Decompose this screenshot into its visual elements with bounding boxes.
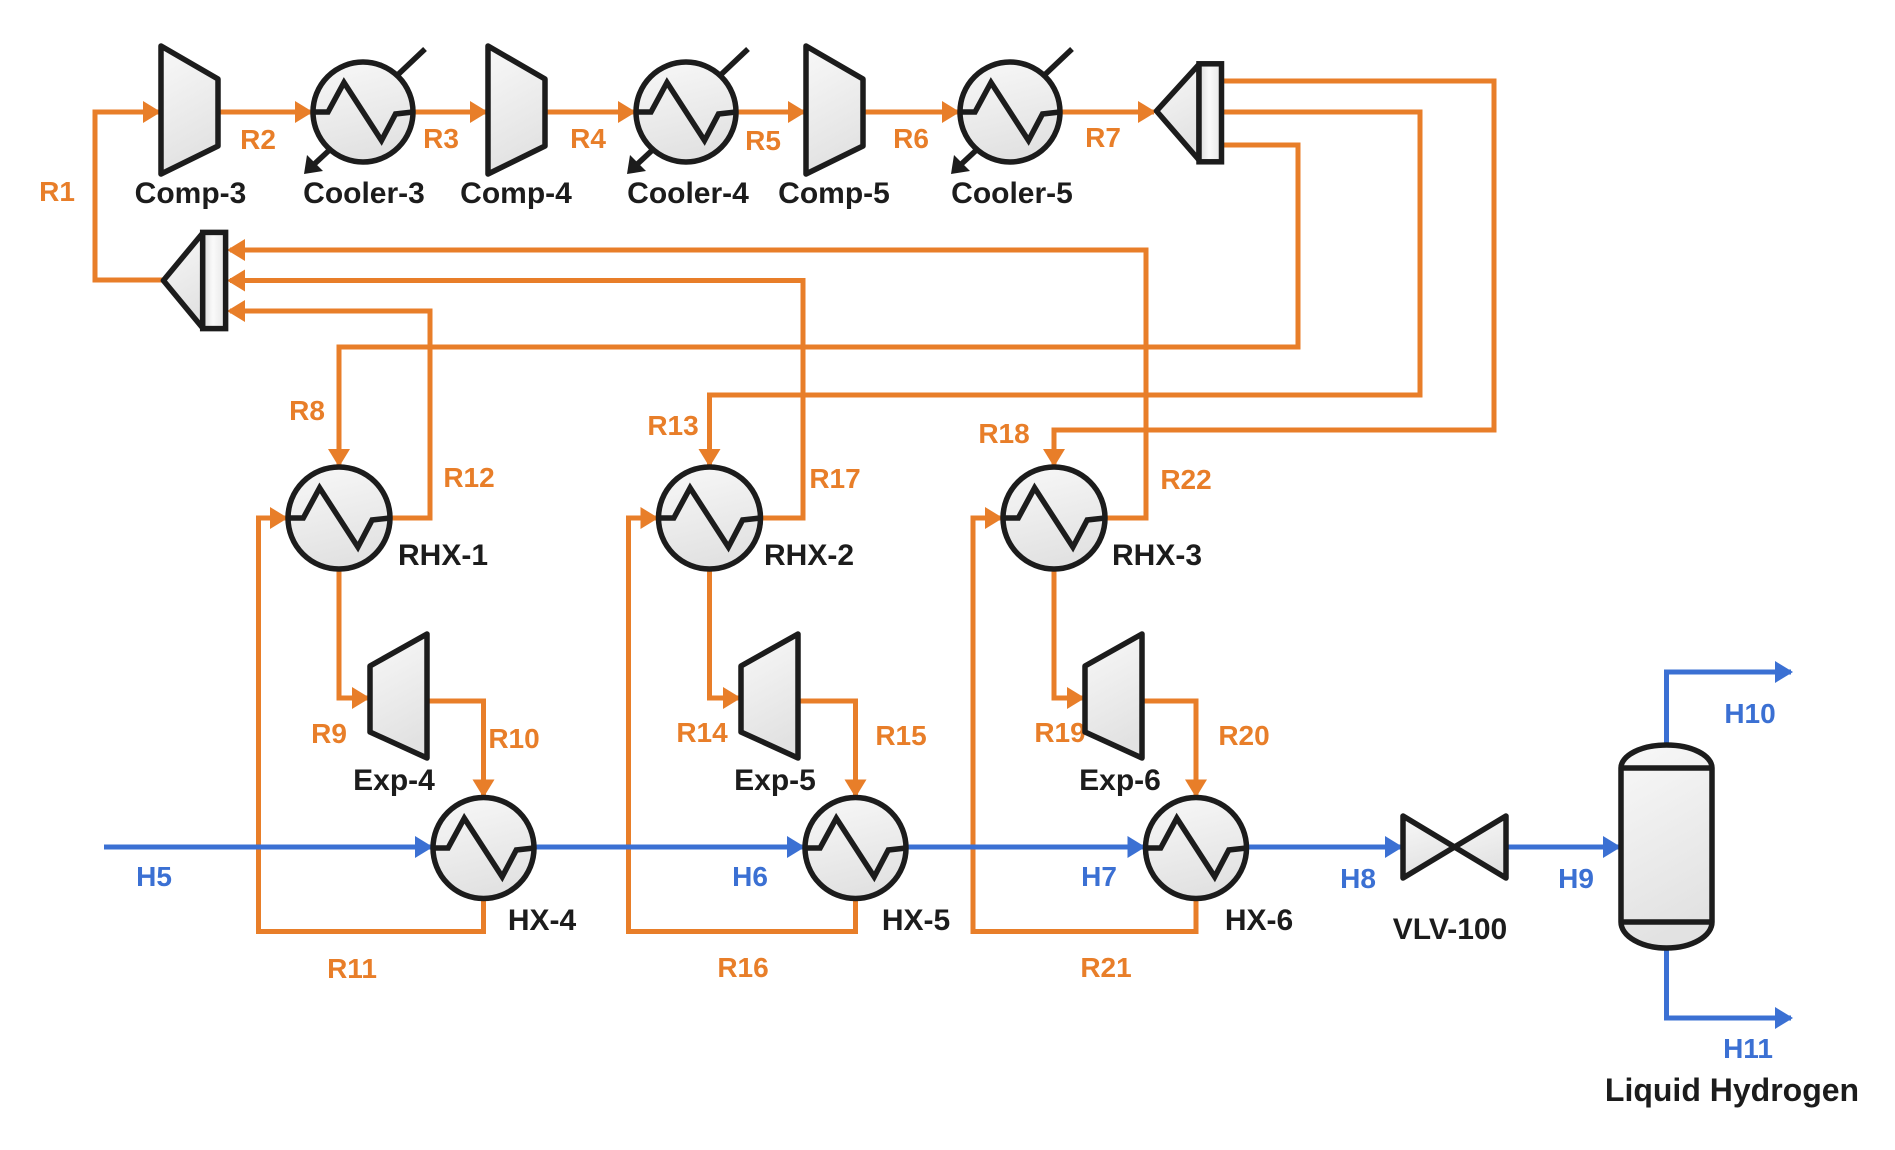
compressor Comp-3 — [161, 46, 218, 174]
wire H7 (HX-5 to HX-6) — [906, 845, 1144, 850]
cooler Cooler-3 — [304, 49, 425, 174]
wire R10 (expander outlet down to HX top) — [427, 701, 484, 795]
svg-text:H11: H11 — [1723, 1033, 1773, 1064]
wire R1 (mixer outlet up to Comp-3) — [95, 112, 163, 280]
wire R22 (RHX-3 outlet to mixer port 1) — [230, 250, 1146, 518]
svg-text:R2: R2 — [240, 124, 276, 155]
wire H9 (valve to flash drum) — [1506, 845, 1619, 850]
wire H11 (drum liquid out) — [1667, 947, 1792, 1018]
arrow R20 — [1185, 780, 1207, 798]
arrow R13 into RHX-2 — [699, 449, 721, 467]
svg-text:R14: R14 — [676, 717, 728, 748]
svg-text:Comp-3: Comp-3 — [135, 177, 247, 210]
svg-text:RHX-3: RHX-3 — [1112, 539, 1202, 572]
svg-text:R4: R4 — [570, 123, 606, 154]
wire R12 (RHX-1 outlet to mixer port 3) — [230, 311, 430, 518]
compressor Comp-4 — [488, 46, 545, 174]
svg-text:R5: R5 — [745, 125, 781, 156]
wire R20 (expander outlet down to HX top) — [1142, 701, 1196, 795]
wire H10 (drum vapour out) — [1667, 672, 1792, 746]
arrow R7 — [1138, 101, 1156, 123]
svg-text:R10: R10 — [488, 723, 539, 754]
arrow R6 — [942, 101, 960, 123]
arrow R2 — [295, 101, 313, 123]
svg-text:R9: R9 — [311, 718, 347, 749]
arrow R10 — [473, 780, 495, 798]
wire R15 (expander outlet down to HX top) — [798, 701, 856, 795]
cooler Cooler-5 — [951, 49, 1072, 174]
arrow R1 into Comp-3 — [143, 101, 161, 123]
svg-text:R19: R19 — [1034, 717, 1085, 748]
svg-text:H8: H8 — [1340, 863, 1376, 894]
arrow R4 — [618, 101, 636, 123]
arrow R22 into mixer — [227, 239, 245, 261]
svg-text:R1: R1 — [39, 176, 75, 207]
wire R11 (HX bottom return up to RHX left inlet) — [259, 518, 484, 932]
wire R7 (Cooler-5 to splitter TEE-100) — [1060, 110, 1154, 115]
arrow R15 — [845, 780, 867, 798]
heat exchanger RHX-1 — [288, 467, 390, 569]
wire H8 (HX-6 to valve VLV-100) — [1247, 845, 1402, 850]
svg-text:VLV-100: VLV-100 — [1393, 913, 1508, 946]
mixer tee (left) — [163, 232, 225, 328]
wire R6 (Comp-5 to Cooler-5) — [863, 110, 958, 115]
wire R16 (HX bottom return up to RHX left inlet) — [629, 518, 856, 932]
arrow H11 — [1775, 1007, 1793, 1029]
svg-text:Comp-4: Comp-4 — [460, 177, 572, 210]
cooler Cooler-4 — [627, 49, 748, 174]
wire splitter out to R8 (port 3 via x=1298) — [339, 145, 1298, 465]
svg-text:R18: R18 — [978, 418, 1029, 449]
arrow R5 — [788, 101, 806, 123]
svg-text:H6: H6 — [732, 861, 768, 892]
wire H6 (HX-4 to HX-5) — [534, 845, 803, 850]
svg-text:Cooler-5: Cooler-5 — [951, 177, 1073, 210]
svg-text:Exp-4: Exp-4 — [353, 764, 435, 797]
svg-text:R12: R12 — [443, 462, 494, 493]
flash drum vessel — [1621, 745, 1712, 948]
svg-text:R15: R15 — [875, 720, 926, 751]
svg-text:R8: R8 — [289, 395, 325, 426]
wire splitter out to R13 (port 2 via x=1420) — [710, 112, 1421, 465]
compressor Comp-5 — [806, 46, 863, 174]
svg-text:HX-4: HX-4 — [508, 904, 577, 937]
arrow H5 — [415, 836, 433, 858]
wire R9 (RHX bottom to expander inlet) — [339, 569, 368, 698]
arrow H9 — [1603, 836, 1621, 858]
svg-text:H10: H10 — [1724, 698, 1775, 729]
heat exchanger RHX-3 — [1003, 467, 1105, 569]
heat exchanger HX-5 — [805, 798, 906, 899]
wire R19 (RHX bottom to expander inlet) — [1054, 569, 1083, 698]
svg-text:Exp-5: Exp-5 — [734, 764, 816, 797]
arrow R16 into RHX — [641, 507, 659, 529]
heat exchanger RHX-2 — [659, 467, 761, 569]
heat exchanger HX-6 — [1146, 798, 1247, 899]
heat exchanger HX-4 — [433, 798, 534, 899]
arrow R18 into RHX-3 — [1043, 449, 1065, 467]
arrow R21 into RHX — [985, 507, 1003, 529]
arrow H8 — [1385, 836, 1403, 858]
svg-text:R7: R7 — [1085, 122, 1121, 153]
svg-text:RHX-1: RHX-1 — [398, 539, 488, 572]
svg-text:Comp-5: Comp-5 — [778, 177, 890, 210]
wire R21 (HX bottom return up to RHX left inlet) — [973, 518, 1196, 932]
arrow R11 into RHX — [270, 507, 288, 529]
expander Exp-4 — [370, 634, 427, 758]
svg-text:R17: R17 — [809, 463, 860, 494]
arrow R8 into RHX-1 — [328, 449, 350, 467]
svg-text:RHX-2: RHX-2 — [764, 539, 854, 572]
svg-text:R20: R20 — [1218, 720, 1269, 751]
svg-text:H9: H9 — [1558, 863, 1594, 894]
arrow R12 into mixer — [227, 300, 245, 322]
arrow H6 — [787, 836, 805, 858]
wire R17 (RHX-2 outlet to mixer port 2) — [230, 281, 803, 519]
wire R5 (Cooler-4 to Comp-5) — [736, 110, 804, 115]
wire R3 (Cooler-3 to Comp-4) — [413, 110, 486, 115]
svg-text:Cooler-3: Cooler-3 — [303, 177, 425, 210]
arrow R17 into mixer — [227, 270, 245, 292]
svg-text:Exp-6: Exp-6 — [1079, 764, 1161, 797]
wire splitter out to R18 (port 1 via x=1494) — [1054, 81, 1494, 465]
splitter tee (top right) — [1157, 64, 1222, 162]
svg-text:HX-6: HX-6 — [1225, 904, 1293, 937]
svg-text:R16: R16 — [717, 952, 768, 983]
arrow R19 — [1067, 687, 1085, 709]
wire R2 (Comp-3 to Cooler-3) — [218, 110, 311, 115]
expander Exp-5 — [741, 634, 798, 758]
svg-text:Liquid Hydrogen: Liquid Hydrogen — [1605, 1072, 1859, 1108]
arrow H10 — [1775, 661, 1793, 683]
arrow R9 — [352, 687, 370, 709]
svg-text:R11: R11 — [327, 953, 377, 984]
expander Exp-6 — [1085, 634, 1142, 758]
svg-text:HX-5: HX-5 — [882, 904, 950, 937]
wire R14 (RHX bottom to expander inlet) — [710, 569, 740, 698]
svg-text:R3: R3 — [423, 123, 459, 154]
svg-text:R13: R13 — [647, 410, 698, 441]
svg-text:R6: R6 — [893, 123, 929, 154]
svg-text:R21: R21 — [1080, 952, 1131, 983]
arrow H7 — [1128, 836, 1146, 858]
wire R4 (Comp-4 to Cooler-4) — [545, 110, 634, 115]
svg-text:H7: H7 — [1081, 861, 1117, 892]
svg-text:Cooler-4: Cooler-4 — [627, 177, 749, 210]
arrow R3 — [470, 101, 488, 123]
arrow R14 — [723, 687, 741, 709]
valve VLV-100 — [1403, 816, 1506, 878]
wire H5 (feed to HX-4) — [104, 845, 431, 850]
svg-text:H5: H5 — [136, 861, 172, 892]
svg-text:R22: R22 — [1160, 464, 1211, 495]
